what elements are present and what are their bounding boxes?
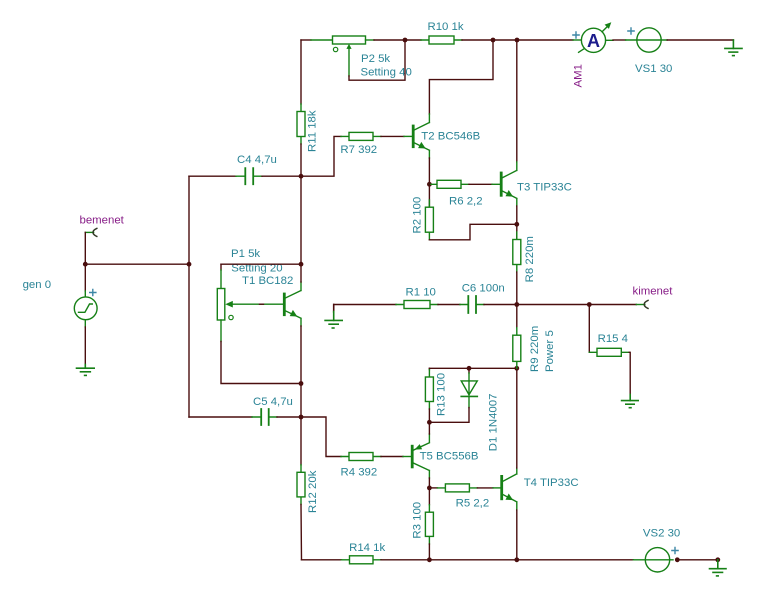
junction dot input node: [83, 262, 88, 267]
wire T1 emitter node to C5 node: [300, 384, 302, 418]
ground output left: [325, 305, 342, 329]
plus mark gen: [90, 289, 96, 295]
wire from node down to T3 collector: [516, 40, 518, 162]
svg-text:T4 TIP33C: T4 TIP33C: [524, 477, 579, 489]
svg-text:R5 2,2: R5 2,2: [456, 497, 490, 509]
resistor R13: [425, 368, 433, 422]
wire top rail left corner to P2: [301, 39, 311, 41]
junction dot T1 emitter node: [299, 381, 304, 386]
svg-text:gen 0: gen 0: [23, 279, 52, 291]
wire R2 bottom to T3 emitter node: [429, 224, 516, 240]
transistor T3 TIP33C: [501, 162, 517, 206]
wire C5 node to R4: [301, 417, 341, 457]
svg-text:R12 20k: R12 20k: [307, 470, 319, 513]
wire ammeter to VS1: [613, 39, 626, 41]
resistor R3: [425, 488, 433, 560]
resistor R7: [341, 132, 381, 140]
transistor T2 BC546B: [413, 114, 429, 158]
wire input node to vertical rail: [85, 263, 189, 265]
wire R6 to T3 base: [469, 183, 492, 185]
svg-text:T1 BC182: T1 BC182: [242, 275, 293, 287]
junction dot C4 node: [299, 174, 304, 179]
wire T2 emitter down to node: [428, 158, 430, 184]
capacitor C6: [438, 296, 517, 313]
wire T4 collector up to R9 node: [516, 368, 518, 468]
wire P2 right to R10: [366, 39, 375, 41]
junction dot VS2 terminal: [675, 557, 680, 562]
svg-text:R10 1k: R10 1k: [428, 21, 464, 33]
bottom rail left to R14: [302, 559, 342, 561]
capacitor C4: [189, 168, 301, 184]
junction dot at T2 collector branch: [491, 38, 496, 43]
resistor R9: [513, 305, 521, 369]
resistor R10: [421, 36, 462, 44]
resistor R8: [513, 224, 521, 272]
wire R13 top node line: [429, 367, 516, 369]
svg-text:R2 100: R2 100: [411, 197, 423, 234]
junction dot T3 emitter node: [514, 222, 519, 227]
wire T1 collector up to node: [300, 264, 302, 282]
wire T4 emitter down to rail: [516, 510, 518, 560]
ground R15: [622, 395, 639, 408]
potentiometer P2: [333, 36, 366, 76]
svg-text:P1 5k: P1 5k: [231, 248, 260, 260]
plus mark VS2: [672, 547, 678, 553]
svg-text:D1 1N4007: D1 1N4007: [487, 394, 499, 452]
wire P1 top to T1 collector node: [221, 263, 301, 265]
junction dot ground pin: [715, 557, 720, 562]
svg-text:R4 392: R4 392: [341, 466, 378, 478]
wire R8 to output node: [516, 272, 518, 305]
wire C4 node to R7: [301, 136, 341, 176]
svg-text:A: A: [587, 31, 600, 51]
junction dot C5 node: [299, 415, 304, 420]
junction dot R3 bottom: [427, 557, 432, 562]
generator gen: [74, 264, 97, 327]
resistor R11: [297, 104, 305, 144]
wire branch down to R15: [588, 305, 590, 353]
junction dot T2 emitter node: [427, 182, 432, 187]
wire left rail down to R11: [300, 40, 302, 104]
wire T3 emitter to R8 node: [516, 206, 518, 224]
junction dot output node: [514, 302, 519, 307]
resistor R5: [429, 484, 477, 492]
capacitor C5: [189, 409, 301, 425]
svg-text:P2 5k: P2 5k: [361, 53, 390, 65]
svg-text:C6 100n: C6 100n: [462, 283, 505, 295]
junction dot diode node: [427, 420, 432, 425]
wire gen to ground: [84, 327, 86, 365]
junction dot at T3 collector branch: [515, 38, 520, 43]
wire R7 to T2 base: [381, 135, 404, 137]
wire P2 wiper to node at top rail: [349, 40, 405, 80]
svg-text:R8 220m: R8 220m: [524, 236, 536, 282]
svg-text:R15 4: R15 4: [598, 333, 628, 345]
wire T5 collector down to R5 node: [428, 478, 430, 488]
wire from node down-left to T2 collector: [429, 40, 493, 114]
junction dot top node P2/R10: [403, 38, 408, 43]
wire R10 to ammeter: [462, 39, 573, 41]
transistor T5 BC556B: [412, 434, 429, 478]
wire P1 bottom to T1 emitter node: [221, 342, 301, 384]
svg-text:R13 100: R13 100: [435, 373, 447, 416]
svg-text:T2 BC546B: T2 BC546B: [421, 130, 480, 142]
transistor T1 BC182: [284, 282, 301, 326]
wire R11 to C4 node: [300, 144, 302, 176]
svg-text:R1 10: R1 10: [406, 287, 436, 299]
svg-text:C4 4,7u: C4 4,7u: [237, 154, 277, 166]
resistor R14: [342, 556, 382, 564]
wire left rail C4 to C5: [188, 176, 190, 417]
resistor R4: [341, 453, 381, 461]
voltage source VS2: [633, 548, 673, 572]
junction dot R5 node: [427, 486, 432, 491]
wire VS1 to ground: [667, 39, 733, 41]
svg-text:Setting 40: Setting 40: [361, 66, 412, 78]
svg-text:Power 5: Power 5: [544, 330, 556, 372]
resistor R2: [425, 184, 433, 240]
svg-text:R9 220m: R9 220m: [529, 326, 541, 372]
svg-text:R7 392: R7 392: [340, 144, 377, 156]
ground top right: [725, 40, 742, 56]
wire R4 to T5 base: [381, 456, 403, 458]
svg-text:R14 1k: R14 1k: [349, 542, 385, 554]
svg-text:AM1: AM1: [572, 64, 584, 87]
transistor T4 TIP33C: [502, 468, 517, 510]
svg-text:T3 TIP33C: T3 TIP33C: [517, 181, 572, 193]
wire output node to kimenet branch: [517, 304, 590, 306]
junction dot R9 bottom node: [514, 366, 519, 371]
svg-text:R6 2,2: R6 2,2: [449, 195, 483, 207]
svg-text:VS2 30: VS2 30: [643, 527, 680, 539]
wire to kimenet terminal: [589, 304, 636, 306]
ground bottom right: [710, 560, 727, 576]
potentiometer P1: [217, 270, 284, 342]
voltage source VS1: [626, 28, 668, 52]
svg-text:R11 18k: R11 18k: [307, 110, 319, 152]
terminal kimenet: [644, 300, 648, 308]
wire ground to R1: [334, 304, 396, 306]
svg-text:kimenet: kimenet: [633, 286, 674, 298]
resistor R6: [429, 180, 469, 188]
svg-text:bemenet: bemenet: [80, 215, 125, 227]
bottom rail R14 to VS2: [381, 559, 633, 561]
ammeter AM1: [573, 22, 613, 52]
junction dot T1 collector node: [299, 262, 304, 267]
wire R15 to ground: [629, 352, 630, 394]
junction dot kimenet branch: [587, 302, 592, 307]
svg-text:C5 4,7u: C5 4,7u: [253, 396, 293, 408]
plus mark AM1: [573, 32, 579, 38]
wire T1 emitter down to node: [300, 326, 302, 384]
plus mark VS1: [628, 28, 634, 34]
svg-text:R3 100: R3 100: [411, 502, 423, 539]
resistor R12: [297, 417, 305, 560]
svg-text:VS1 30: VS1 30: [635, 63, 672, 75]
junction dot D1 anode node: [467, 366, 472, 371]
diode D1 1N4007: [429, 368, 477, 422]
resistor R15: [589, 348, 629, 356]
terminal bemenet: [85, 228, 97, 236]
junction dot left rail: [187, 262, 192, 267]
svg-text:T5 BC556B: T5 BC556B: [420, 450, 479, 462]
wire VS2 to ground: [677, 559, 718, 561]
wire T5 emitter up to diode node: [428, 422, 430, 434]
ground gen: [77, 365, 95, 376]
wire C4 node down to T1 collector node: [300, 176, 302, 264]
wire bemenet to input node: [84, 232, 86, 264]
junction dot T4 emitter rail: [514, 557, 519, 562]
resistor R1: [396, 301, 438, 309]
wire R5 to T4 base: [477, 487, 493, 489]
